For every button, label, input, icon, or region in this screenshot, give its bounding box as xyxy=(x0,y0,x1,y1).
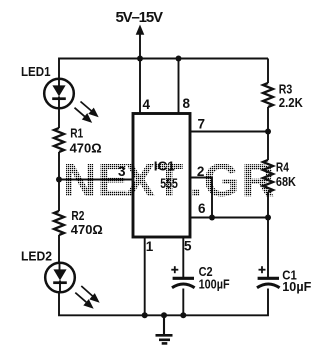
junction node A pin3 xyxy=(56,177,62,183)
LED1 light arrows xyxy=(75,102,98,122)
wire pin6 xyxy=(190,217,268,219)
junction dot pin6 rail xyxy=(265,215,271,221)
supply arrowhead xyxy=(136,25,145,35)
junction dot ground xyxy=(161,312,167,318)
junction dot pin2-pin6 xyxy=(209,215,215,221)
wire pin1 xyxy=(144,237,146,315)
svg-text:LED1: LED1 xyxy=(21,65,51,79)
wire C2 to bottom rail xyxy=(182,289,184,316)
wire pin7 xyxy=(190,131,268,133)
svg-text:3: 3 xyxy=(118,164,126,179)
svg-text:R2: R2 xyxy=(71,209,84,223)
wire bottom rail xyxy=(145,289,268,316)
wire pin2 xyxy=(190,178,212,218)
svg-text:68K: 68K xyxy=(276,174,297,189)
svg-text:2.2K: 2.2K xyxy=(279,95,304,110)
svg-text:470Ω: 470Ω xyxy=(70,140,102,155)
svg-text:1: 1 xyxy=(146,239,154,254)
wire pin5 to C2 xyxy=(182,237,184,278)
op IC U1 555 box xyxy=(133,114,190,238)
wire LED2 to bottom rail xyxy=(59,293,145,316)
wire R2 to LED2 xyxy=(58,235,60,263)
LED D1 xyxy=(44,79,74,109)
capacitor C1 xyxy=(257,266,280,288)
junction dot pin7 rail xyxy=(265,129,271,135)
watermark NEXT.GR xyxy=(55,155,280,205)
wire pin8 xyxy=(178,59,180,114)
wire R1 to R2 node A xyxy=(58,152,60,211)
junction dot pin8 rail xyxy=(176,56,182,62)
resistor R3 xyxy=(263,83,273,107)
capacitor C2 xyxy=(171,266,194,288)
wire pin4 xyxy=(139,59,141,114)
svg-text:R4: R4 xyxy=(276,161,289,175)
junction dot pin1 bottom xyxy=(142,312,148,318)
wire right rail R4-C1 xyxy=(267,192,269,278)
svg-text:470Ω: 470Ω xyxy=(71,222,103,237)
wire right rail R3-R4 xyxy=(267,107,269,160)
svg-text:5: 5 xyxy=(184,239,192,254)
svg-text:7: 7 xyxy=(198,117,206,132)
svg-text:5V–15V: 5V–15V xyxy=(116,9,164,26)
svg-text:IC1: IC1 xyxy=(154,159,175,174)
resistor R1 xyxy=(54,128,64,152)
svg-text:6: 6 xyxy=(198,201,206,216)
svg-text:2: 2 xyxy=(197,164,205,179)
wire LED1 to R1 xyxy=(58,109,60,129)
junction dot pin4 rail xyxy=(137,56,143,62)
svg-text:R1: R1 xyxy=(70,127,83,141)
wire right rail upper xyxy=(267,59,269,84)
svg-text:100µF: 100µF xyxy=(199,277,230,292)
svg-text:555: 555 xyxy=(160,176,178,191)
svg-text:8: 8 xyxy=(183,96,191,111)
wire top rail V+ xyxy=(59,59,268,79)
svg-text:LED2: LED2 xyxy=(21,250,52,264)
svg-text:10µF: 10µF xyxy=(282,279,311,294)
wire pin3 xyxy=(59,179,133,181)
LED2 light arrows xyxy=(75,286,98,307)
supply arrow xyxy=(139,34,141,59)
junction dot C2 bottom xyxy=(180,312,186,318)
ground xyxy=(156,315,173,343)
resistor R2 xyxy=(54,211,64,235)
LED D2 xyxy=(45,263,75,293)
resistor R4 xyxy=(263,160,273,192)
svg-text:4: 4 xyxy=(143,97,151,112)
